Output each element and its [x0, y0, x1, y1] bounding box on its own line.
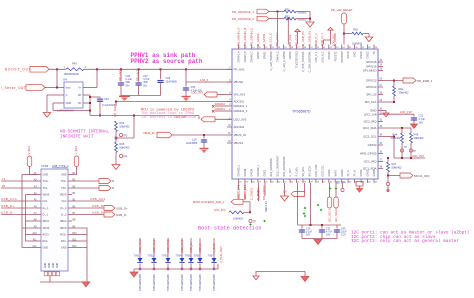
svg-text:1.8: 1.8 [283, 191, 287, 194]
connector J1 body [41, 169, 68, 271]
wire R45 bot lead [410, 143, 412, 158]
port PD_SOURCE_2 [257, 16, 269, 21]
svg-text:TPS65987D: TPS65987D [292, 110, 311, 114]
marker green boot2 [263, 220, 265, 222]
wire A11 stub [26, 240, 38, 242]
IC bottom pin 16 stub [334, 179, 336, 183]
IC right pin SPI_CS stub [378, 94, 383, 96]
svg-text:GND4: GND4 [341, 169, 344, 177]
marker green boot1 [249, 223, 251, 225]
U4 right pin 5 stub [83, 94, 87, 96]
connector right pin B8 stub [68, 220, 72, 222]
svg-text:SWCLK1: SWCLK1 [264, 200, 268, 212]
wire I_SENSE_OUT to U4 [45, 87, 60, 89]
svg-text:VBUS: VBUS [60, 194, 67, 197]
wire to MCU1_IRQ port [388, 175, 400, 177]
IC left pin VBUS2 stub [227, 81, 232, 83]
resistor R45 shunt [66, 68, 84, 71]
junction at x97 [96, 68, 98, 70]
wire chain top [115, 102, 117, 107]
capacitor C30 [183, 87, 189, 91]
test pad component [356, 182, 363, 187]
test point TP8 [409, 149, 412, 152]
marker green (305,208) [304, 207, 306, 209]
svg-text:V_BUS_DET: V_BUS_DET [219, 246, 223, 263]
svg-text:10k0402: 10k0402 [233, 217, 244, 221]
IC right pin I2C1_IRQ stub [378, 161, 383, 163]
svg-text:TP: TP [413, 151, 416, 153]
svg-text:I2C port3: only can act as gen: I2C port3: only can act as general maste… [351, 239, 459, 244]
wire power pair drop [323, 40, 325, 45]
wire C40 bot lead [336, 233, 338, 239]
port I2C3_SDA [334, 197, 339, 208]
svg-text:RX1-: RX1- [61, 240, 67, 243]
wire B12 stub [72, 247, 87, 249]
resistor R28 [229, 211, 244, 214]
svg-text:TVS6: TVS6 [194, 255, 201, 258]
svg-text:TX1-: TX1- [43, 187, 49, 190]
wire lead of C34 [120, 69, 122, 81]
wire TVS2 top [153, 238, 155, 258]
IC top pin 4 stub [257, 45, 259, 50]
svg-text:R45: R45 [414, 133, 419, 137]
IC U1 TPS65987D body [232, 49, 378, 179]
connector right pin B6 stub [68, 207, 72, 209]
resistor R25 [115, 142, 118, 153]
svg-text:PD_ADC1: PD_ADC1 [113, 103, 117, 117]
wire pad drop [359, 186, 361, 189]
connector left pin A2 stub [37, 180, 41, 182]
wire TVS6 bottom [199, 264, 201, 270]
junction (90,97) [89, 96, 91, 98]
svg-text:R27: R27 [392, 162, 397, 166]
svg-text:TVS5: TVS5 [185, 255, 192, 258]
svg-text:VOUT3V3: VOUT3V3 [341, 51, 344, 63]
svg-text:DRAIN_2: DRAIN_2 [276, 51, 279, 62]
connector right pin B5 stub [68, 200, 72, 202]
junction (344,33.5) [343, 33, 345, 35]
junction (250,212.3) [249, 211, 251, 213]
wire PD_SOURCE_1 down [277, 12, 279, 45]
IC bottom pin 6 stub [270, 179, 272, 183]
svg-text:16V: 16V [326, 234, 331, 237]
svg-text:USB_D-: USB_D- [1, 210, 14, 214]
svg-text:VIN_3V3: VIN_3V3 [234, 93, 246, 97]
svg-text:USB_D+: USB_D+ [1, 204, 15, 208]
svg-text:NC: NC [78, 94, 82, 97]
TVS diode TVS4 [179, 258, 184, 262]
wire TVS3 bottom [167, 264, 169, 270]
svg-text:GND1: GND1 [263, 169, 266, 177]
svg-text:GPIO9: GPIO9 [251, 168, 254, 176]
svg-text:GND: GND [43, 247, 49, 250]
svg-text:I2C_SDA3: I2C_SDA3 [334, 208, 338, 222]
svg-text:USB_TX1-: USB_TX1- [152, 239, 156, 253]
wire D-2 row [72, 214, 104, 216]
svg-text:TP_A: TP_A [347, 170, 350, 177]
svg-text:DRAIN_B: DRAIN_B [244, 51, 247, 62]
svg-text:PD_DRAIN_A: PD_DRAIN_A [236, 28, 240, 46]
wire pin30 ext [383, 110, 386, 112]
junction (277.5,11.5) [277, 11, 279, 13]
IC bottom pin 10 stub [296, 179, 298, 183]
IC bottom pin 17 stub [341, 179, 343, 183]
connector left pin A4 stub [37, 194, 41, 196]
svg-text:TPD1E05U06: TPD1E05U06 [138, 274, 142, 291]
svg-text:PP_HV1: PP_HV1 [118, 70, 122, 81]
IC top pin 2 stub [244, 45, 246, 50]
marker green (318,205) [317, 204, 319, 206]
wire cap bank bottom bus [302, 238, 337, 240]
svg-text:D-_1: D-_1 [43, 214, 49, 217]
svg-text:LDO_3V3: LDO_3V3 [214, 208, 226, 212]
junction (100,115.5) [99, 115, 101, 117]
resistor R52 [284, 17, 296, 20]
wire A10 stub [26, 234, 38, 236]
junction (90,110.5) [89, 110, 91, 112]
wire TVS6 top [199, 238, 201, 258]
IC bottom pin 2 stub [244, 179, 246, 183]
wire R26 to gnd [363, 33, 369, 35]
wire tvs right ext [217, 264, 219, 269]
svg-text:USB_D+: USB_D+ [92, 204, 105, 208]
ground cap bank [314, 240, 322, 245]
wire I2C2_SCL ext [383, 136, 394, 138]
wire U4 supply down [89, 95, 91, 116]
svg-text:GPIO8: GPIO8 [244, 168, 247, 176]
wire C32 gnd lead [413, 121, 415, 124]
svg-text:TPD1E05U06: TPD1E05U06 [198, 274, 202, 291]
port I_SENSE_OUT [26, 85, 45, 91]
svg-text:DRAIN_A: DRAIN_A [238, 51, 241, 62]
wire R61 bottom [393, 96, 395, 102]
IC right pin SPI_CLK stub [378, 101, 383, 103]
wire TVS7 bottom [213, 264, 215, 270]
underline usb type c [52, 167, 68, 169]
connector left pin A11 stub [37, 240, 41, 242]
IC top pin 10 stub [296, 45, 298, 50]
svg-text:TX2-: TX2- [61, 187, 67, 190]
IC bottom pin 15 stub [328, 179, 330, 183]
svg-text:BOOT1: BOOT1 [237, 189, 241, 199]
IC left pin VIN_3V3 stub [227, 94, 232, 96]
svg-text:50k0402: 50k0402 [414, 136, 425, 140]
svg-text:50k0402: 50k0402 [120, 145, 131, 149]
IC bottom pin 11 stub [302, 179, 304, 183]
wire TVS1 bottom [139, 264, 141, 270]
svg-text:USB_D+: USB_D+ [116, 206, 128, 210]
svg-text:HPD_GPIO5: HPD_GPIO5 [360, 152, 377, 156]
ground TVS bus [130, 272, 138, 277]
power arrow LDO_3V3 top [328, 28, 333, 35]
svg-text:D-_2: D-_2 [61, 214, 67, 217]
ground pi left [253, 276, 259, 280]
svg-text:I2C3_SCL: I2C3_SCL [322, 164, 325, 176]
IC bottom pin 8 stub [283, 179, 285, 183]
wire C44 bottom lead [99, 102, 101, 115]
port LDO_1V8 bottom [291, 192, 305, 197]
wire R27 down [387, 172, 389, 176]
IC right pin I2C1_SDA stub [378, 168, 383, 170]
wire pin30 gnd [385, 111, 387, 114]
wire C30 to gnd [185, 91, 187, 96]
IC right pin HPD_GPIO5 stub [378, 153, 383, 155]
connector right pin B2 stub [68, 180, 72, 182]
junction at x160 [160, 68, 162, 70]
wire C32 lead [413, 114, 415, 116]
ground bar of cap bank [119, 96, 130, 101]
wire bootstate down [249, 202, 251, 212]
svg-text:D+_2: D+_2 [60, 207, 67, 210]
svg-text:CC2: CC2 [61, 200, 67, 203]
ground below U4 left [43, 113, 51, 118]
wire D+ row left [1, 207, 37, 209]
IC top pin 15 stub [328, 45, 330, 50]
port right 1 [99, 179, 111, 184]
port BOOST_OUT [30, 67, 49, 73]
IC left pin VBUS_IN stub [227, 134, 232, 136]
svg-text:C44: C44 [104, 97, 109, 101]
svg-text:VBAT: VBAT [334, 170, 337, 177]
test point TP6 [249, 219, 252, 222]
port V_BUS right [74, 156, 79, 167]
op-amp U4 body [64, 82, 83, 108]
connector left pin A8 stub [37, 220, 41, 222]
svg-text:SBU2: SBU2 [60, 220, 67, 223]
svg-text:USB_D-: USB_D- [92, 210, 104, 214]
wire TVS1 top [139, 238, 141, 258]
test point TP5 [341, 188, 344, 191]
svg-text:TLVDD3EGND: TLVDD3EGND [296, 51, 299, 68]
junction TVS5 bus [190, 268, 192, 270]
wire reset to R26 [344, 33, 352, 35]
IC top pin 13 stub [315, 45, 317, 50]
svg-text:C_LGB_HGPIO9: C_LGB_HGPIO9 [270, 51, 273, 71]
red dot marker [387, 189, 390, 192]
svg-text:Vout: Vout [66, 87, 71, 90]
IC right pin GPIO12 stub [378, 80, 383, 82]
wire TX2+ row [72, 180, 99, 182]
IC top pin 12 stub [308, 45, 310, 50]
svg-text:PD_SOURCE_2: PD_SOURCE_2 [232, 17, 254, 21]
no-erc DRAIN2 [212, 105, 215, 108]
svg-text:VR_I2CA: VR_I2CA [309, 166, 312, 177]
svg-text:TP_B: TP_B [354, 170, 357, 177]
wire ADC sense [116, 101, 232, 103]
svg-text:I2C2_SCL: I2C2_SCL [363, 135, 377, 139]
svg-text:GND: GND [45, 263, 47, 268]
junction at (57,87.5) [56, 87, 58, 89]
svg-text:BOOT2: BOOT2 [243, 189, 247, 199]
svg-text:N: N [112, 179, 114, 183]
svg-text:VDDIO: VDDIO [328, 51, 331, 59]
wire bus to I2C2_SCL [393, 137, 395, 159]
IC top pin 20 stub [360, 45, 362, 50]
junction (402,158) [401, 157, 403, 159]
TVS diode TVS3 [165, 258, 170, 262]
ground below C32 [411, 124, 418, 128]
svg-text:SPI_MISO: SPI_MISO [363, 69, 377, 73]
svg-text:RX2-: RX2- [43, 240, 49, 243]
test point TP7 [400, 149, 403, 152]
IC top pin 19 stub [354, 45, 356, 50]
wire R51 R52 join [296, 12, 310, 23]
wire TVS4 top [181, 238, 183, 258]
svg-text:LDO_1V8: LDO_1V8 [400, 110, 412, 114]
port LDO_3V3 to VIN [204, 92, 217, 97]
wire swd1 [258, 183, 260, 201]
connector right pin B4 stub [68, 194, 72, 196]
capacitor C44 [97, 98, 103, 102]
wire U4 left pin3 out [53, 102, 60, 104]
wire corner x53 [52, 103, 54, 111]
junction (134,115.5) [133, 115, 135, 117]
svg-text:GPIO12: GPIO12 [366, 79, 377, 83]
IC bottom pin 13 stub [315, 179, 317, 183]
wire U4 V+ up to rail [96, 69, 98, 87]
svg-text:BOOST_OUT: BOOST_OUT [5, 68, 31, 72]
wire TVS5 top [190, 238, 192, 258]
TVS diode TVS6 [197, 258, 202, 262]
svg-text:USB_RX1+: USB_RX1+ [166, 238, 170, 253]
svg-text:TVS3: TVS3 [162, 255, 169, 258]
svg-text:50k0402: 50k0402 [120, 124, 131, 128]
wire V_BUS right [72, 167, 77, 175]
IC right pin GND stub [378, 110, 383, 112]
svg-text:VBUS2: VBUS2 [234, 80, 244, 84]
marker green (330,188.5) [329, 187, 331, 189]
wire I2C2_SDA long [383, 127, 411, 129]
svg-text:TPD1E05U06: TPD1E05U06 [152, 274, 156, 291]
U4 left pin 2 stub [60, 94, 64, 96]
junction (394,136.5) [393, 136, 395, 138]
IC left pin PP_HV1 stub [227, 68, 232, 70]
wire A1 to bus [22, 174, 37, 176]
svg-text:C_GPIO0: C_GPIO0 [256, 33, 260, 46]
junction TVS4 bus [181, 268, 183, 270]
junction (288,18.6) [287, 18, 289, 20]
svg-text:I2C2_IRQ: I2C2_IRQ [364, 120, 378, 124]
svg-text:GPIO13: GPIO13 [366, 85, 377, 89]
junction TVS6 bus [199, 268, 201, 270]
resistor R45b [410, 133, 413, 143]
svg-text:GPIO2: GPIO2 [289, 51, 292, 59]
svg-text:22uF0805: 22uF0805 [166, 80, 178, 83]
IC top pin 16 stub [334, 45, 336, 50]
wire TVS bus gnd drop [133, 269, 135, 272]
svg-text:GPIO15: GPIO15 [366, 60, 377, 64]
connector right pin B10 stub [68, 234, 72, 236]
svg-text:BZ1_GD/GPIO6: BZ1_GD/GPIO6 [270, 158, 273, 177]
port USB_D- [104, 212, 115, 217]
junction TVS1 bus [139, 268, 141, 270]
svg-text:GPIO4: GPIO4 [368, 143, 377, 147]
svg-text:C_SWD: C_SWD [257, 190, 261, 200]
junction divider mid [115, 137, 118, 140]
svg-text:NC: NC [78, 102, 82, 105]
svg-text:VBUS: VBUS [60, 227, 67, 230]
wire CC1 row [1, 200, 37, 202]
capacitor C23 [319, 229, 325, 233]
wire C18 down [203, 143, 205, 148]
capacitor C19 [299, 229, 305, 233]
svg-text:BZT TP4: BZT TP4 [336, 182, 346, 185]
wire caps ground bus [121, 95, 161, 97]
wire A8 stub [26, 220, 38, 222]
resistor R27 [387, 162, 390, 172]
svg-text:R45: R45 [72, 62, 77, 66]
wire TVS4 bottom [181, 264, 183, 270]
svg-text:V-: V- [66, 94, 69, 97]
svg-text:GND: GND [66, 102, 72, 105]
U4 right pin 4 stub [83, 87, 87, 89]
power arrow VDDIO [295, 29, 300, 36]
wire bottom loop y110 [53, 110, 90, 112]
junction TVS7 bus [213, 268, 215, 270]
svg-text:10k0402: 10k0402 [399, 90, 410, 94]
IC right pin GPIO13 stub [378, 86, 383, 88]
port LDO_3V3 to VIN_3V3 [201, 117, 215, 122]
svg-text:16V: 16V [419, 121, 424, 124]
svg-text:I2C1_IRQ: I2C1_IRQ [364, 160, 378, 164]
svg-text:I2C1_SDA: I2C1_SDA [363, 167, 377, 171]
svg-text:C_USB_TOP/DP1: C_USB_TOP/DP1 [302, 51, 305, 72]
IC top pin 9 stub [289, 45, 291, 50]
svg-text:TP: TP [253, 221, 256, 223]
TVS diode TVS7 [211, 258, 216, 262]
svg-text:22uF0805: 22uF0805 [186, 142, 198, 145]
wire R44 top lead [401, 128, 403, 133]
svg-text:U4: U4 [63, 78, 67, 82]
wire BOOST_OUT to shunt [49, 68, 66, 70]
svg-text:0R0603: 0R0603 [298, 12, 307, 15]
wire PD_HW_RESET down [343, 24, 345, 45]
TVS diode TVS5 [188, 258, 193, 262]
svg-text:I_Sense_OUT: I_Sense_OUT [1, 86, 26, 90]
svg-text:DRAIN1_1: DRAIN1_1 [234, 104, 248, 108]
port USB_D+ [104, 206, 115, 211]
wire shunt to rail PP_HV1 [84, 68, 232, 70]
svg-text:GND: GND [57, 263, 59, 268]
wire C30 lead [185, 82, 187, 87]
port right 2 [99, 186, 111, 191]
resistor R24 [115, 121, 118, 132]
svg-text:USB_D-: USB_D- [198, 242, 202, 253]
wire left vbus bus [25, 195, 27, 242]
wire TVS bus [134, 268, 218, 270]
capacitor C34 [118, 82, 124, 86]
svg-text:C18: C18 [192, 139, 197, 142]
svg-text:GND: GND [53, 263, 55, 268]
wire LDO_3V3 bend [198, 116, 200, 120]
svg-text:LDO_3V3: LDO_3V3 [191, 90, 203, 94]
svg-text:GND2: GND2 [367, 51, 370, 59]
wire pin2 down [244, 183, 246, 190]
svg-text:LDO_3V3: LDO_3V3 [234, 118, 247, 122]
svg-text:RESETZ: RESETZ [334, 51, 337, 61]
connector right pin B3 stub [68, 187, 72, 189]
wire port to pin LDO_3V3 [215, 118, 232, 120]
svg-text:VBUS_IN: VBUS_IN [234, 133, 246, 137]
junction (402,128) [401, 127, 403, 129]
svg-text:TPD1E05U06: TPD1E05U06 [189, 274, 193, 291]
wire B9 down right [72, 228, 87, 282]
connector shell pin 3 [52, 272, 55, 276]
wire C37 to gnd bus [138, 86, 140, 96]
port I2C3_SCL [327, 197, 332, 208]
wire BOOT-STATE [243, 201, 250, 203]
IC right pin GPIO4 stub [378, 144, 383, 146]
